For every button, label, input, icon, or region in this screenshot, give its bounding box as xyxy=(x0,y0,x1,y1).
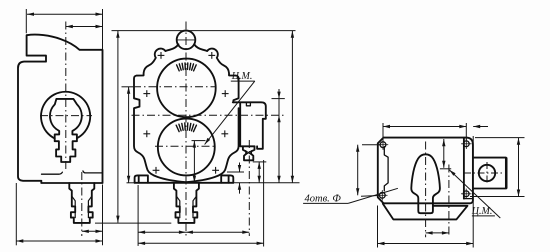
overall height dimension xyxy=(234,182,300,184)
bore hatch ticks xyxy=(176,125,179,131)
right view bottom dimension xyxy=(377,206,379,248)
left view bottom width dimension xyxy=(15,183,17,245)
bore hatch ticks xyxy=(177,65,180,71)
right view centerlines xyxy=(425,142,427,238)
left view lower output shaft xyxy=(69,183,94,223)
side bracket outline xyxy=(233,102,266,149)
right view left dimension xyxy=(362,144,380,146)
left view top width dimension xyxy=(25,9,27,33)
right view right dimension xyxy=(475,137,525,139)
bearing boss circle (arc, open at bottom flange) xyxy=(41,92,90,139)
tab hole centerlines xyxy=(464,172,503,174)
base plate bottom xyxy=(135,182,234,184)
overall top datum line xyxy=(112,30,296,32)
left view centerlines xyxy=(65,22,67,171)
side tab with hole xyxy=(473,158,506,189)
right view base plate outline xyxy=(378,138,473,204)
middle view upper bore circle xyxy=(157,59,216,118)
center of mass leader (front view) xyxy=(205,81,255,144)
keyhole bore with keyway tab xyxy=(50,99,82,162)
dim upper bore center to base xyxy=(122,86,134,88)
c.m. height dim right view xyxy=(443,139,445,168)
bolt hole crosses xyxy=(158,54,165,56)
left view second width dimension xyxy=(66,26,103,28)
inner rib line xyxy=(463,138,465,199)
bracket end shaft (hourglass) xyxy=(243,146,255,160)
left view height dimension xyxy=(95,222,171,224)
middle view lower shaft xyxy=(174,183,199,223)
leader to corner hole xyxy=(348,188,398,203)
bottom flange trapezoid xyxy=(383,204,468,220)
bracket small dims right side xyxy=(272,98,285,100)
bracket shaft bottom dim xyxy=(253,161,266,163)
middle view centerlines xyxy=(185,22,187,238)
right view top dimension xyxy=(382,123,384,141)
middle view lower bore circle xyxy=(158,119,215,176)
bell shaped boss outline xyxy=(411,154,440,213)
svg-text:Ц.М.: Ц.М. xyxy=(471,206,493,217)
left view shaft offset dimension xyxy=(102,185,104,246)
base height small dim xyxy=(227,171,244,173)
c.m. leader right view xyxy=(449,170,500,218)
fillet web lines xyxy=(42,172,63,174)
middle view casing outline right half xyxy=(186,44,239,182)
bottom dimension chain xyxy=(137,185,139,246)
left view front cover outline xyxy=(18,35,46,181)
center of mass offset dim xyxy=(426,232,449,234)
left view body outline xyxy=(27,35,103,183)
middle view lifting eye circle xyxy=(177,31,196,50)
middle view casing outline left half xyxy=(134,44,186,182)
corner holes xyxy=(380,142,386,148)
corner hole tick marks xyxy=(378,144,388,146)
inner relief contour xyxy=(384,147,388,191)
svg-text:4отв. Ф: 4отв. Ф xyxy=(305,193,342,204)
svg-text:Ц.М.: Ц.М. xyxy=(231,71,253,82)
center of mass height dimension xyxy=(192,140,206,142)
eye circle horizontal centerline xyxy=(177,39,195,41)
